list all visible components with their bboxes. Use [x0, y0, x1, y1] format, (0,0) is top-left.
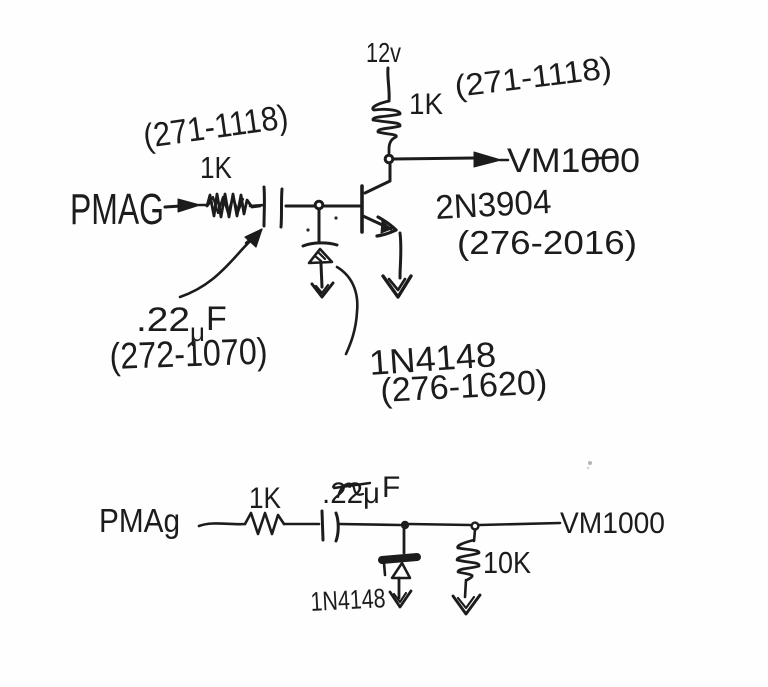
wire node B to resistor R4 — [474, 530, 475, 541]
svg-text:(272-1070): (272-1070) — [109, 331, 268, 377]
resistor R4 10K — [457, 540, 479, 580]
wire diode D1 to ground — [321, 264, 322, 287]
svg-text:(276-2016): (276-2016) — [457, 224, 637, 261]
ink speck near base — [306, 216, 337, 231]
ground emitter arrow — [383, 276, 411, 297]
svg-text:.22μ: .22μ — [322, 477, 380, 510]
wire resistor R3 to capacitor C2 — [284, 523, 319, 526]
wire PMAG to resistor R3 — [199, 523, 245, 526]
label .22uF value — [136, 300, 227, 347]
svg-text:VM1000: VM1000 — [560, 507, 665, 540]
label 1K for R2 — [200, 150, 232, 185]
wire collector node to output arrow — [393, 158, 474, 159]
label (271-1118) for R2 — [141, 98, 291, 156]
label (272-1070) — [109, 331, 268, 377]
callout curve to diode D1 — [337, 267, 357, 354]
diode D2 triangle — [392, 563, 410, 578]
svg-text:(271-1118): (271-1118) — [141, 98, 291, 156]
wire node A to diode D2 — [403, 529, 406, 553]
wire base to node — [323, 205, 362, 208]
node base junction — [315, 201, 323, 209]
label (276-1620) — [379, 363, 548, 410]
wire capacitor C2 to node A — [339, 524, 400, 525]
wire node B to VM1000 — [479, 523, 560, 525]
label 1N4148 (top) — [368, 335, 497, 383]
ground resistor R4 arrow — [453, 595, 480, 614]
power rail 12V label — [366, 37, 401, 68]
svg-text:PMAg: PMAg — [99, 502, 180, 539]
svg-text:VM1000: VM1000 — [507, 142, 640, 180]
ground diode D1 arrow — [312, 283, 333, 297]
label 1K for R1 — [409, 88, 443, 121]
wire diode D2 to ground — [398, 578, 401, 598]
wire resistor R4 to ground — [465, 580, 466, 597]
diode D1 cathode bar — [303, 243, 337, 246]
paper speck — [587, 461, 592, 469]
svg-text:1K: 1K — [249, 482, 281, 515]
diode D1 triangle — [309, 249, 332, 263]
label PMAG input (bottom) — [99, 502, 180, 539]
svg-text:12v: 12v — [366, 37, 401, 68]
wire node A to node B — [409, 524, 470, 525]
wire emitter to ground — [399, 233, 403, 278]
resistor R3 1K (bottom) — [245, 513, 284, 534]
resistor R1 1K collector pull-up — [373, 101, 400, 153]
label .22uF (bottom) — [322, 471, 400, 510]
capacitor C1 left plate — [263, 187, 266, 226]
svg-text:F: F — [382, 471, 400, 504]
label VM1000 (bottom) — [560, 507, 665, 540]
svg-text:2N3904: 2N3904 — [434, 183, 552, 227]
svg-text:(276-1620): (276-1620) — [379, 363, 548, 410]
transistor Q1 emitter with arrow — [363, 216, 396, 236]
label 2N3904 — [434, 183, 552, 227]
callout arrow to capacitor C1 — [180, 229, 262, 297]
wire PMAG to arrow — [165, 206, 181, 207]
svg-text:PMAG: PMAG — [70, 185, 164, 234]
transistor Q1 2N3904 base bar — [360, 186, 364, 232]
wire resistor R2 to capacitor C1 — [250, 205, 264, 206]
wire collector lead to transistor — [365, 163, 390, 193]
capacitor C1 right plate — [281, 189, 282, 227]
arrowhead output VM1000 — [474, 152, 508, 167]
diode D2 cathode bar (thick) — [382, 557, 417, 575]
svg-text:1K: 1K — [200, 150, 232, 185]
wire node to diode D1 — [318, 210, 321, 242]
wire node to capacitor C1 — [286, 205, 315, 208]
wire 12V to resistor R1 — [388, 68, 389, 101]
node B junction — [472, 523, 479, 530]
ground diode D2 arrow — [390, 591, 411, 607]
label (276-2016) — [457, 224, 637, 261]
label VM1000 output (top) — [507, 142, 640, 180]
svg-text:1K: 1K — [409, 88, 443, 121]
label 10K — [483, 545, 531, 580]
svg-text:10K: 10K — [483, 545, 531, 580]
label PMAG input (top) — [70, 185, 164, 234]
label 1K for R3 — [249, 482, 281, 515]
capacitor C2 left plate — [322, 511, 323, 540]
svg-text:1N4148: 1N4148 — [310, 583, 386, 617]
node A junction — [401, 521, 409, 529]
node collector junction — [385, 155, 393, 163]
label (271-1118) for R1 — [453, 50, 614, 104]
resistor R2 1K input — [207, 194, 260, 217]
label 1N4148 (bottom) — [310, 583, 386, 617]
arrowhead input signal — [178, 199, 208, 212]
capacitor C2 right plate — [336, 513, 338, 541]
svg-text:(271-1118): (271-1118) — [453, 50, 614, 104]
